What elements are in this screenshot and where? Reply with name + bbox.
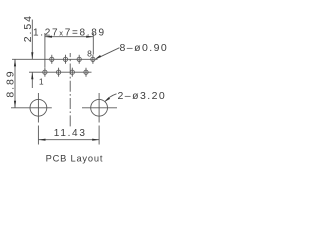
pad hole pin 5 [70,68,74,77]
arrowhead 8.89 down [14,101,16,108]
dimension 2.54 lines [31,20,33,89]
pad hole pin 2 [50,55,54,64]
pad hole pin 8 [91,55,95,64]
arrowhead 11.43 left [38,139,45,141]
arrowhead dim top right [86,36,93,38]
wire top row centerline [12,58,98,60]
svg-text:2.54: 2.54 [22,14,34,42]
arrowhead 2.54 down [31,52,33,59]
dimension 11.43 lines [38,126,99,145]
leader to 2-dia3.20 [105,94,116,102]
svg-text:1: 1 [39,77,44,87]
pad hole pin 4 [63,55,67,64]
arrowhead 8.89 up [14,59,16,66]
svg-text:2–ø3.20: 2–ø3.20 [118,90,167,102]
dimension 1.27x7=8.89 lines [45,33,93,68]
pad hole pin 1 [43,68,47,77]
svg-text:8–ø0.90: 8–ø0.90 [120,42,169,54]
svg-text:8.89: 8.89 [4,70,16,98]
arrowhead leader 3.20 [105,97,110,102]
svg-text:8: 8 [87,49,92,59]
dimension 8.89 line [14,59,16,108]
pad hole pin 3 [56,68,60,77]
pad hole pin 7 [84,68,88,77]
arrowhead 11.43 right [92,139,99,141]
mounting hole left [11,93,52,123]
arrowhead 2.54 up [31,72,33,79]
leader to 8-dia0.90 [96,48,119,59]
pad hole pin 6 [77,55,81,64]
node vertical symmetry centerline [69,53,71,128]
mounting hole right [82,93,117,123]
wire bottom row centerline [29,71,92,73]
svg-text:11.43: 11.43 [54,128,87,139]
svg-text:1.27x7=8.89: 1.27x7=8.89 [33,28,106,39]
arrowhead leader 0.90 [95,55,101,59]
arrowhead dim top left [45,36,52,38]
svg-text:PCB Layout: PCB Layout [46,154,104,164]
